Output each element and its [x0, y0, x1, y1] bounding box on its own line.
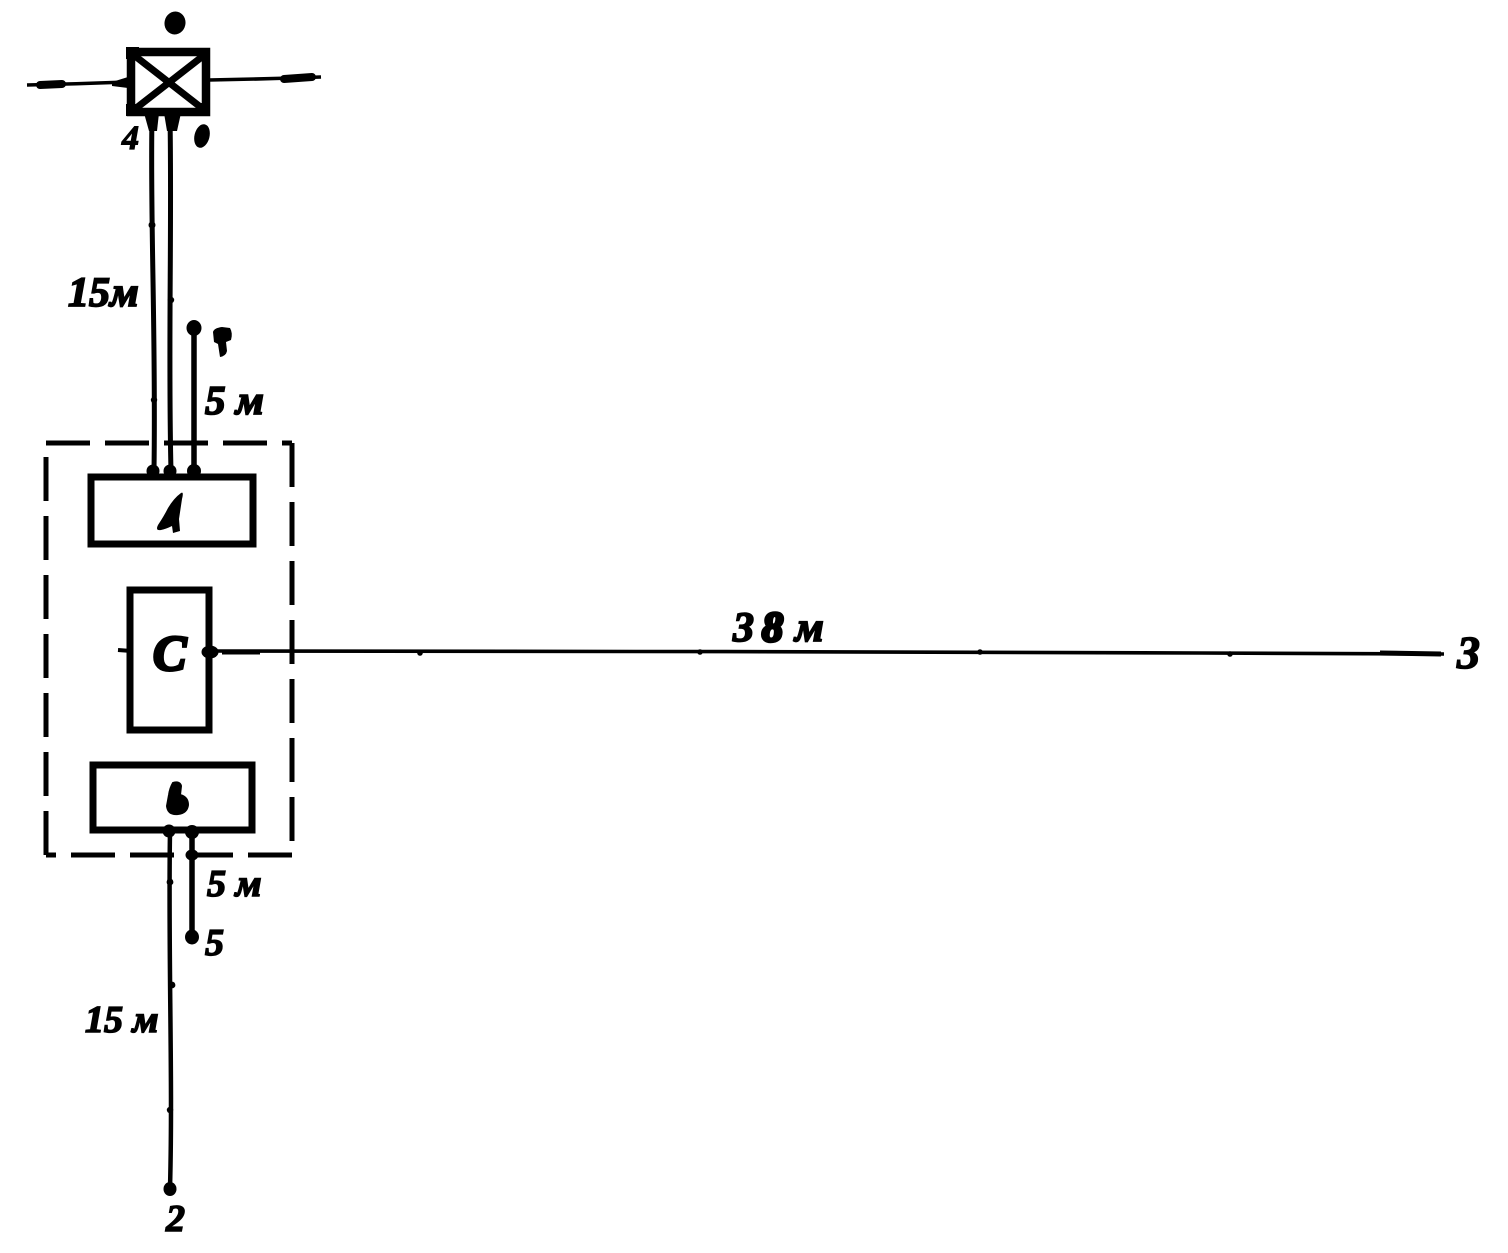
node 2 dot [164, 1182, 177, 1196]
svg-text:15м: 15м [68, 270, 139, 316]
svg-text:4: 4 [121, 120, 139, 157]
node 5 dot [185, 930, 199, 945]
node 8 (top blob label) [162, 10, 187, 37]
label 7 [213, 327, 232, 357]
junction blob on dashed edge [186, 850, 199, 861]
block B [93, 765, 252, 830]
tick on C left edge [118, 650, 132, 651]
junction dots at A inputs [147, 465, 160, 478]
svg-text:м: м [793, 605, 824, 651]
right antenna lead [209, 77, 321, 80]
letter A blob [157, 493, 183, 533]
svg-text:3: 3 [732, 605, 754, 651]
block A [91, 477, 253, 544]
wire 15m to node 2 [170, 832, 171, 1188]
left lead thick dash [40, 84, 62, 85]
junction dots at B outputs [163, 825, 176, 838]
svg-text:8: 8 [762, 605, 783, 651]
svg-text:15 м: 15 м [85, 999, 159, 1041]
label 6 (pin blob) [192, 123, 212, 150]
feeder line left conductor [152, 117, 155, 471]
right lead thick dash [284, 77, 312, 79]
svg-text:5 м: 5 м [207, 863, 262, 905]
block C [130, 590, 209, 730]
svg-text:5 м: 5 м [205, 377, 264, 423]
wedge where left lead meets box [112, 77, 128, 88]
wire 38m to node 3 [210, 651, 1444, 654]
wire left antenna lead [27, 82, 128, 85]
stub under crossed box (right leg) [164, 113, 181, 131]
svg-text:5: 5 [205, 922, 224, 964]
wire 5m to node 5 [189, 832, 195, 936]
wire 5m stub to A [191, 331, 197, 471]
svg-text:3: 3 [1456, 627, 1480, 678]
node 7 dot [187, 320, 202, 336]
letter B blob [167, 782, 188, 814]
stub under crossed box (left leg) [144, 113, 159, 131]
svg-text:2: 2 [165, 1198, 185, 1240]
svg-text:C: C [153, 625, 187, 681]
antenna switch box (crossed square) [131, 52, 206, 112]
dashed equipment enclosure [46, 443, 292, 855]
corner ink blobs of crossed box [126, 47, 210, 116]
wire ink nubs [167, 879, 174, 886]
feeder line right conductor [170, 117, 171, 471]
wire ink nubs [417, 650, 423, 656]
junction dot C output [202, 646, 219, 659]
feeder ink nubs [149, 222, 156, 229]
